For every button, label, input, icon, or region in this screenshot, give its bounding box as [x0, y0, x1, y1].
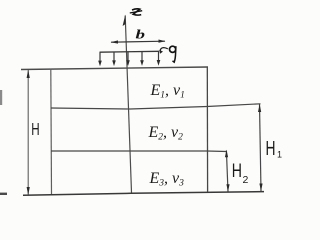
dimension line b — [111, 41, 165, 42]
H1 top arrowhead — [258, 104, 261, 112]
load arrow 2 — [112, 52, 116, 66]
block bottom edge — [23, 192, 264, 196]
load arrow 4 — [140, 52, 144, 66]
svg-text:1: 1 — [277, 150, 282, 160]
svg-text:E1, ν1: E1, ν1 — [150, 82, 185, 101]
H2 top arrowhead — [225, 150, 228, 157]
q leader arrow — [160, 48, 168, 52]
block right edge — [206, 67, 208, 192]
svg-text:H: H — [232, 161, 242, 182]
z-axis arrowhead — [123, 15, 126, 27]
scan smudge bottom-left dash — [0, 193, 7, 195]
block left edge — [50, 69, 53, 194]
b right arrowhead — [159, 40, 166, 43]
H bottom arrowhead — [27, 187, 30, 195]
H top arrowhead — [27, 70, 30, 78]
svg-text:b: b — [136, 27, 146, 42]
svg-text:2: 2 — [243, 174, 249, 186]
z-axis line — [125, 16, 131, 193]
b left arrowhead — [111, 40, 119, 43]
H2 bottom arrowhead — [226, 184, 229, 191]
label z — [130, 9, 142, 15]
block top edge — [21, 67, 208, 70]
label H1 — [266, 138, 283, 160]
svg-text:E3, ν3: E3, ν3 — [149, 170, 185, 189]
load arrow 3 — [126, 52, 130, 66]
svg-text:E2, ν2: E2, ν2 — [148, 124, 184, 143]
dimension H line — [27, 70, 29, 195]
paper background — [0, 0, 292, 208]
svg-text:H: H — [31, 119, 39, 139]
load arrow 1 — [98, 52, 102, 66]
interface line 2 — [51, 150, 227, 153]
label q — [170, 46, 176, 62]
label H2 — [232, 161, 249, 186]
H1 bottom arrowhead — [259, 184, 262, 192]
interface line 1 — [51, 104, 261, 109]
dimension H1 line — [260, 104, 262, 191]
scan smudge left edge — [0, 90, 2, 105]
svg-text:H: H — [266, 138, 276, 160]
dimension H2 line — [226, 151, 228, 192]
load line q — [100, 50, 160, 53]
load arrow 5 — [157, 51, 161, 65]
